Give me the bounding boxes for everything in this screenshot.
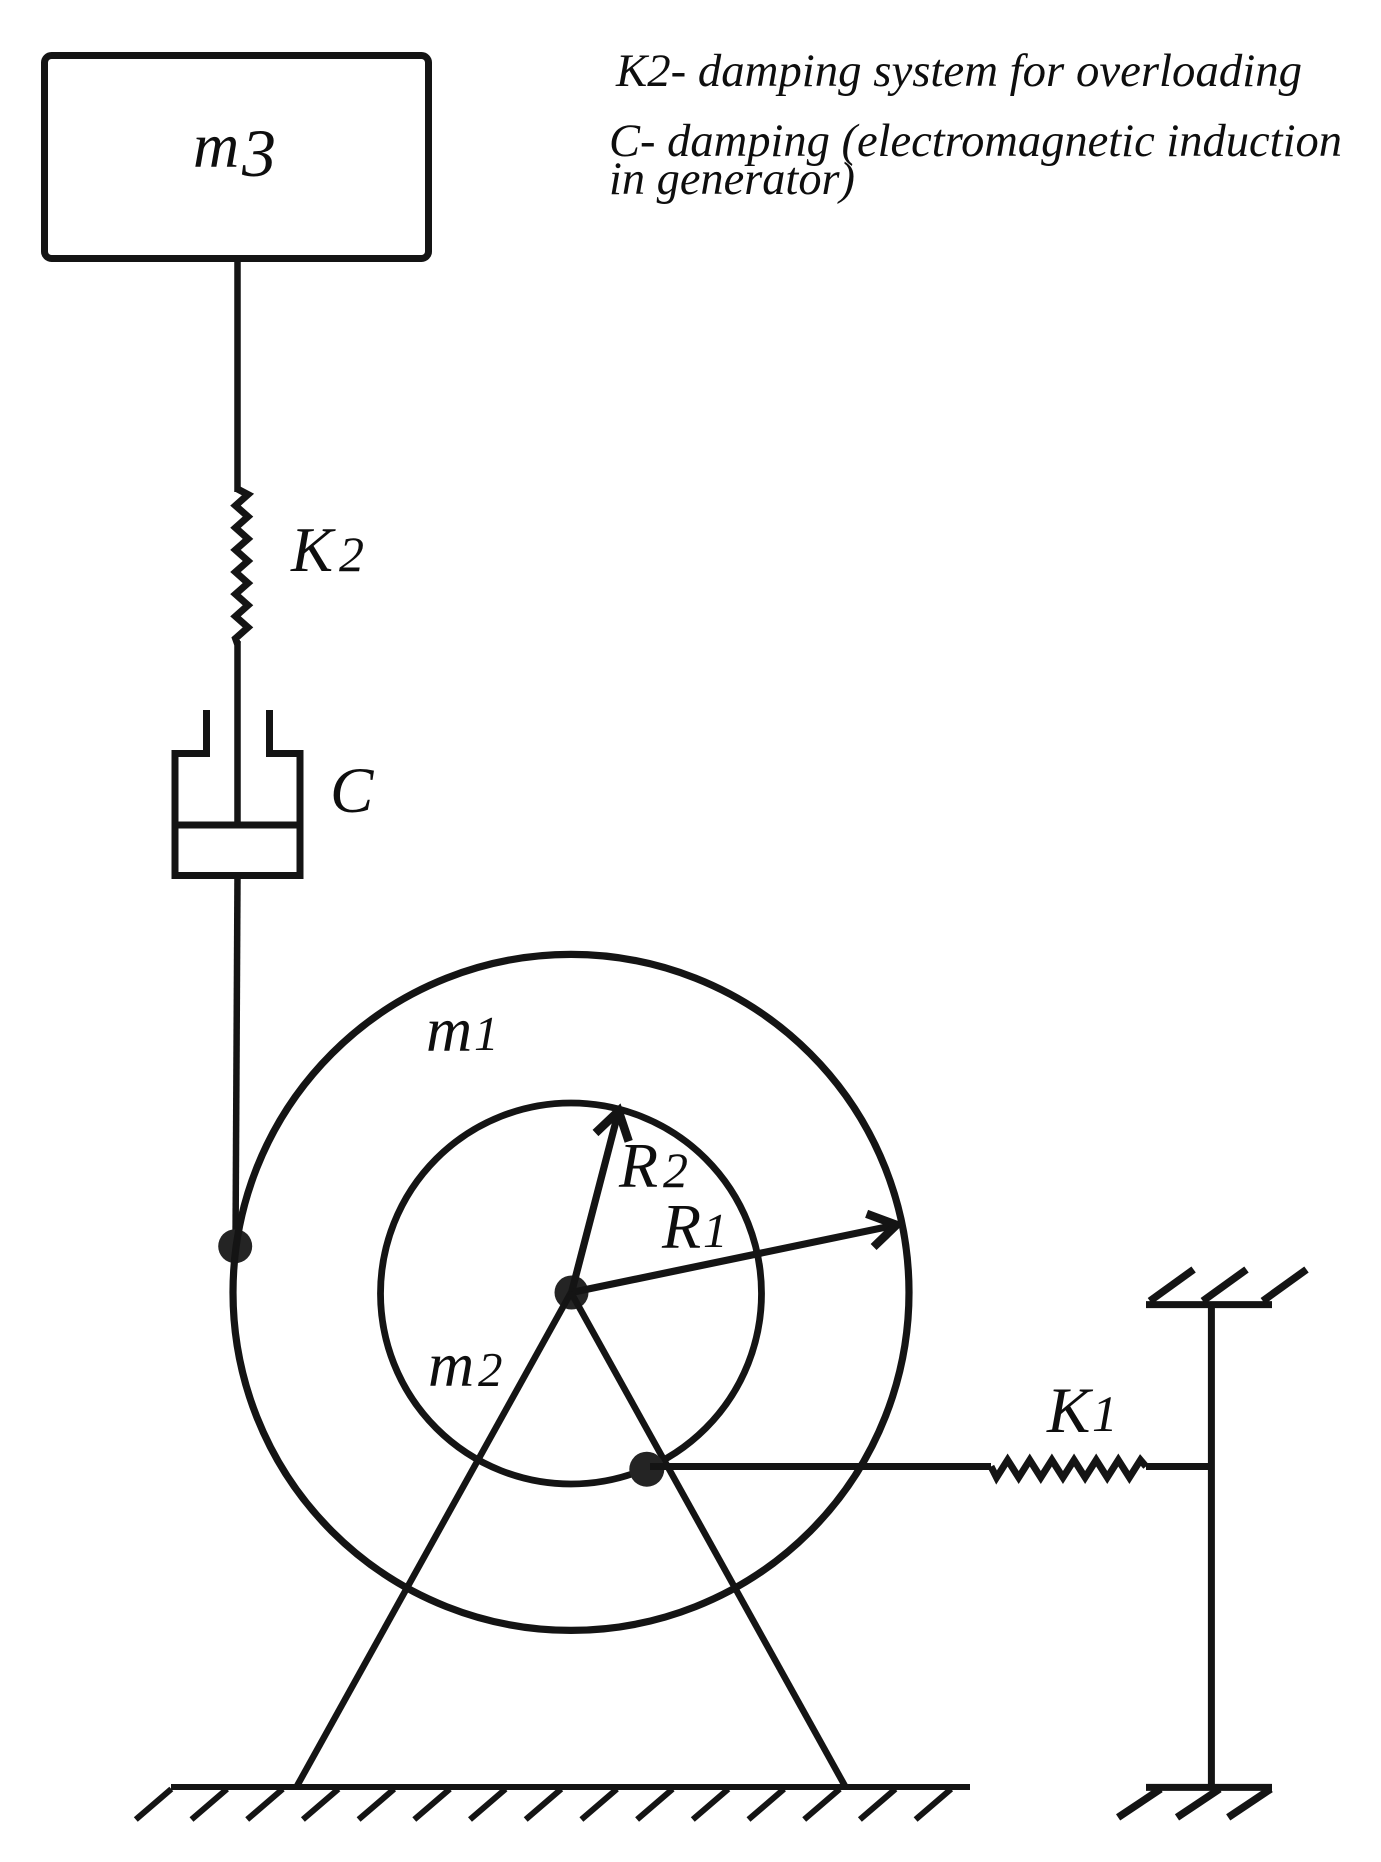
wall top hatches bbox=[1150, 1270, 1307, 1302]
svg-text:C: C bbox=[330, 755, 374, 827]
svg-text:m: m bbox=[193, 110, 239, 181]
label m1 bbox=[426, 994, 499, 1065]
svg-text:R: R bbox=[618, 1130, 658, 1201]
label K2 bbox=[290, 515, 364, 585]
wire spring K1 to wall post bbox=[1146, 1463, 1211, 1470]
label m2 bbox=[428, 1329, 503, 1400]
wall bottom anchor bar bbox=[1146, 1784, 1272, 1791]
wire spring K2 to damper piston rod bbox=[234, 641, 241, 825]
center axle dot bbox=[555, 1276, 589, 1310]
svg-text:1: 1 bbox=[703, 1203, 728, 1258]
svg-text:K: K bbox=[1046, 1375, 1094, 1447]
label C bbox=[330, 755, 374, 827]
wall bottom hatches bbox=[1118, 1789, 1271, 1817]
svg-text:2: 2 bbox=[339, 526, 364, 582]
wire damper to wheel rim dot bbox=[236, 876, 238, 1247]
svg-text:2: 2 bbox=[478, 1342, 503, 1397]
svg-text:K: K bbox=[290, 515, 336, 585]
svg-text:3: 3 bbox=[241, 115, 276, 191]
ground line bbox=[171, 1784, 970, 1790]
label R1 bbox=[661, 1191, 728, 1262]
label m3 bbox=[193, 110, 276, 191]
wire hub dot to spring K1 bbox=[650, 1463, 991, 1470]
note text line 1 bbox=[609, 46, 1342, 205]
spring K2 bbox=[236, 489, 249, 644]
svg-text:1: 1 bbox=[474, 1006, 499, 1061]
svg-text:m: m bbox=[428, 1329, 474, 1400]
mass m3 box bbox=[45, 56, 429, 259]
node: K1 attachment dot on hub bbox=[629, 1452, 664, 1487]
radius arrow R2 shaft bbox=[572, 1111, 619, 1292]
ground hatches bbox=[136, 1789, 951, 1820]
wall top anchor bar bbox=[1146, 1301, 1272, 1308]
label R2 bbox=[618, 1130, 688, 1201]
svg-text:m: m bbox=[426, 994, 472, 1065]
left support leg bbox=[297, 1293, 571, 1787]
spring K1 bbox=[991, 1460, 1146, 1478]
label K1 bbox=[1046, 1375, 1118, 1447]
right support leg bbox=[571, 1293, 845, 1787]
node: rod attachment dot on outer ring bbox=[218, 1229, 252, 1263]
svg-text:2: 2 bbox=[663, 1142, 688, 1198]
inner hub m2 bbox=[381, 1103, 762, 1484]
wire m3 to spring K2 bbox=[234, 259, 241, 492]
svg-text:in generator): in generator) bbox=[609, 154, 855, 205]
radius arrow R1 shaft bbox=[572, 1225, 897, 1293]
damper C piston plate bbox=[172, 822, 304, 829]
wall post bbox=[1208, 1305, 1215, 1788]
radius arrow R1 head bbox=[867, 1214, 897, 1247]
damper C cylinder with collar prongs bbox=[175, 710, 300, 876]
svg-text:R: R bbox=[661, 1191, 701, 1262]
radius arrow R2 head bbox=[596, 1111, 629, 1141]
svg-text:K2- damping system for overloa: K2- damping system for overloading bbox=[615, 46, 1302, 97]
svg-text:1: 1 bbox=[1092, 1387, 1118, 1443]
outer ring m1 bbox=[233, 954, 909, 1630]
